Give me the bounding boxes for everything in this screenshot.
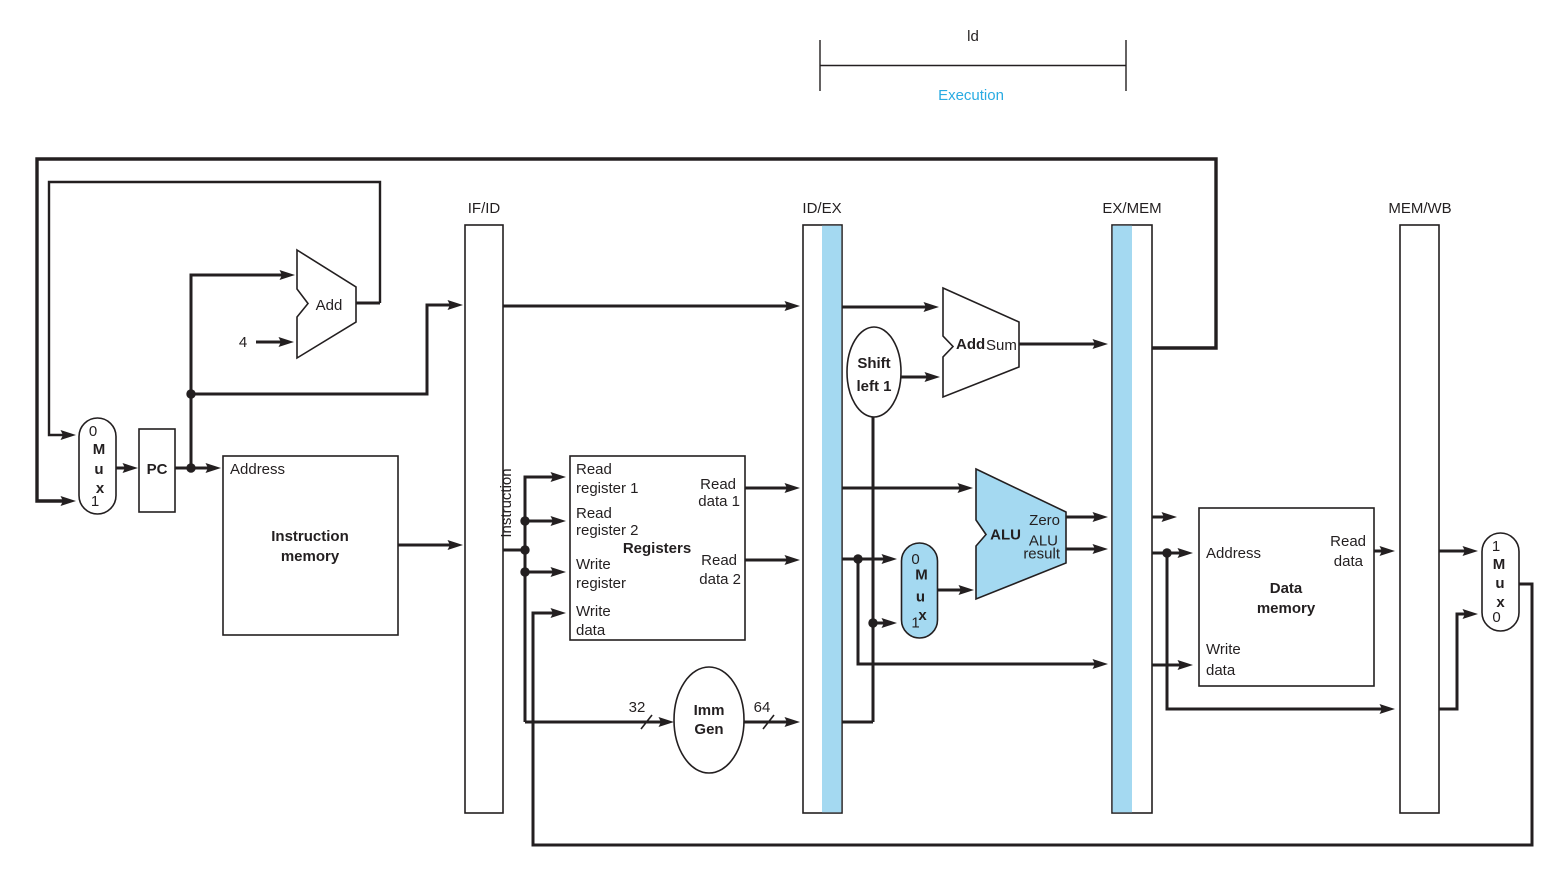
svg-text:Read: Read [701,552,737,569]
junction PC branch to IF/ID [186,389,195,398]
svg-text:data: data [576,622,606,639]
junction instruction bus main [520,545,529,554]
pipeline register MEM/WB [1388,200,1451,813]
svg-text:Add: Add [316,297,343,314]
svg-text:Add: Add [956,336,985,353]
wire MEM/WB ALU result to mux M3 [1439,609,1478,709]
wire Zero to EX/MEM [1066,512,1108,522]
wire ALU result to data memory address [1152,548,1193,558]
width label 32 [629,699,652,729]
alu ALU [976,469,1066,599]
adder Add (PC+4) [297,250,356,358]
wire immediate to mux M2 input 1 [873,618,897,628]
svg-text:0: 0 [911,551,919,568]
svg-text:register 2: register 2 [576,522,639,539]
wire read data 2 to mux M2 [842,554,897,564]
wire PC to instruction memory address [175,463,221,473]
svg-text:Address: Address [1206,545,1261,562]
junction instruction bus read register 2 [520,516,529,525]
adder AddSum [943,288,1019,397]
svg-text:ALU: ALU [990,527,1021,544]
svg-text:u: u [1495,575,1504,592]
svg-text:0: 0 [1492,609,1500,626]
register PC [139,429,175,512]
register file Registers [570,456,745,640]
svg-text:data: data [1206,662,1236,679]
pipeline register ID/EX [802,200,842,813]
svg-text:Write: Write [1206,641,1241,658]
wire Zero stub [1152,512,1177,522]
wire ALU result to EX/MEM [1066,544,1108,554]
svg-text:Read: Read [1330,533,1366,550]
svg-text:Read: Read [576,505,612,522]
svg-text:64: 64 [754,699,771,716]
svg-text:u: u [94,461,103,478]
svg-text:Write: Write [576,556,611,573]
wire write-back to registers write data [533,584,1532,845]
width label 64 [754,699,774,729]
svg-text:PC: PC [147,461,168,478]
data memory [1199,508,1374,686]
svg-text:Read: Read [700,476,736,493]
pipeline register IF/ID [465,200,503,813]
svg-text:x: x [918,607,927,624]
svg-text:data: data [1334,553,1364,570]
wire imm gen to ID/EX [744,717,800,727]
svg-text:0: 0 [89,423,97,440]
svg-text:ld: ld [967,28,979,45]
wire read data 1 to ALU [842,483,973,493]
svg-text:memory: memory [281,548,340,565]
wire IF/ID PC to ID/EX [503,301,800,311]
svg-text:data 1: data 1 [698,493,740,510]
wire mux M2 to ALU [938,585,975,595]
junction instruction bus write register [520,567,529,576]
svg-text:MEM/WB: MEM/WB [1388,200,1451,217]
svg-text:Address: Address [230,461,285,478]
wire MEM/WB read data to mux M3 [1439,546,1478,556]
wire read data 2 down to EX/MEM write data [858,559,1108,669]
svg-text:register: register [576,575,626,592]
instruction label ld [967,28,979,45]
svg-text:EX/MEM: EX/MEM [1102,200,1161,217]
svg-text:M: M [915,567,928,584]
wire ALU result bypass to MEM/WB [1167,553,1395,714]
stage label Execution [938,87,1004,104]
mux M3 write-back [1482,533,1519,631]
svg-text:Write: Write [576,603,611,620]
wire PC to IF/ID [191,300,463,394]
svg-text:1: 1 [91,493,99,510]
svg-text:Read: Read [576,461,612,478]
wire read data 2 to ID/EX [745,555,800,565]
svg-text:Instruction: Instruction [271,528,349,545]
wire ID/EX PC to AddSum [842,302,939,312]
junction ALU result branch [1162,548,1171,557]
svg-text:Shift: Shift [857,355,890,372]
wire instruction memory to IF/ID [398,540,463,550]
svg-text:Registers: Registers [623,540,691,557]
wire immediate from ID/EX up to shift left 1 [842,417,873,722]
svg-text:Execution: Execution [938,87,1004,104]
svg-text:memory: memory [1257,600,1316,617]
svg-text:M: M [1493,556,1506,573]
wire shift left 1 to AddSum [901,372,940,382]
wire PC up to Add [191,270,295,468]
wire Add output [356,302,380,305]
svg-text:Imm: Imm [694,702,725,719]
constant 4 [239,334,247,351]
wire 4 to Add [256,337,294,347]
wire read data 1 to ID/EX [745,483,800,493]
svg-text:result: result [1023,546,1061,563]
svg-text:Sum: Sum [986,337,1017,354]
svg-text:IF/ID: IF/ID [468,200,501,217]
svg-text:1: 1 [1492,538,1500,555]
wire EX/MEM write data to data memory [1152,660,1193,670]
junction immediate branch to mux M2 [868,618,877,627]
stage bracket [820,40,1126,91]
svg-text:Instruction: Instruction [498,468,515,537]
wire branch-target feedback (EX/MEM to PC mux 1) [37,159,1216,506]
instruction memory [223,456,398,635]
junction PC output [186,463,195,472]
svg-text:left 1: left 1 [856,378,891,395]
wire instruction bus [503,472,674,727]
svg-text:4: 4 [239,334,247,351]
oval Shift left 1 [847,327,901,417]
label Instruction (vertical) [498,468,515,537]
mux M2 ALUSrc [902,543,938,638]
svg-text:u: u [916,589,925,606]
wire PC+4 feedback (Add to PC mux 0) [49,182,380,440]
svg-text:register 1: register 1 [576,480,639,497]
svg-text:Gen: Gen [694,721,723,738]
wire Sum to EX/MEM [1019,339,1108,349]
mux M1 PC source [79,418,116,514]
wire read data to MEM/WB [1374,546,1395,556]
svg-text:ID/EX: ID/EX [802,200,841,217]
wire mux M1 to PC [116,463,138,473]
svg-text:Data: Data [1270,580,1303,597]
junction read data 2 branch [853,554,862,563]
svg-text:1: 1 [911,615,919,632]
svg-text:32: 32 [629,699,646,716]
svg-text:Zero: Zero [1029,512,1060,529]
svg-text:data 2: data 2 [699,571,741,588]
svg-text:M: M [93,441,106,458]
pipeline register EX/MEM [1102,200,1161,813]
imm gen oval [674,667,744,773]
